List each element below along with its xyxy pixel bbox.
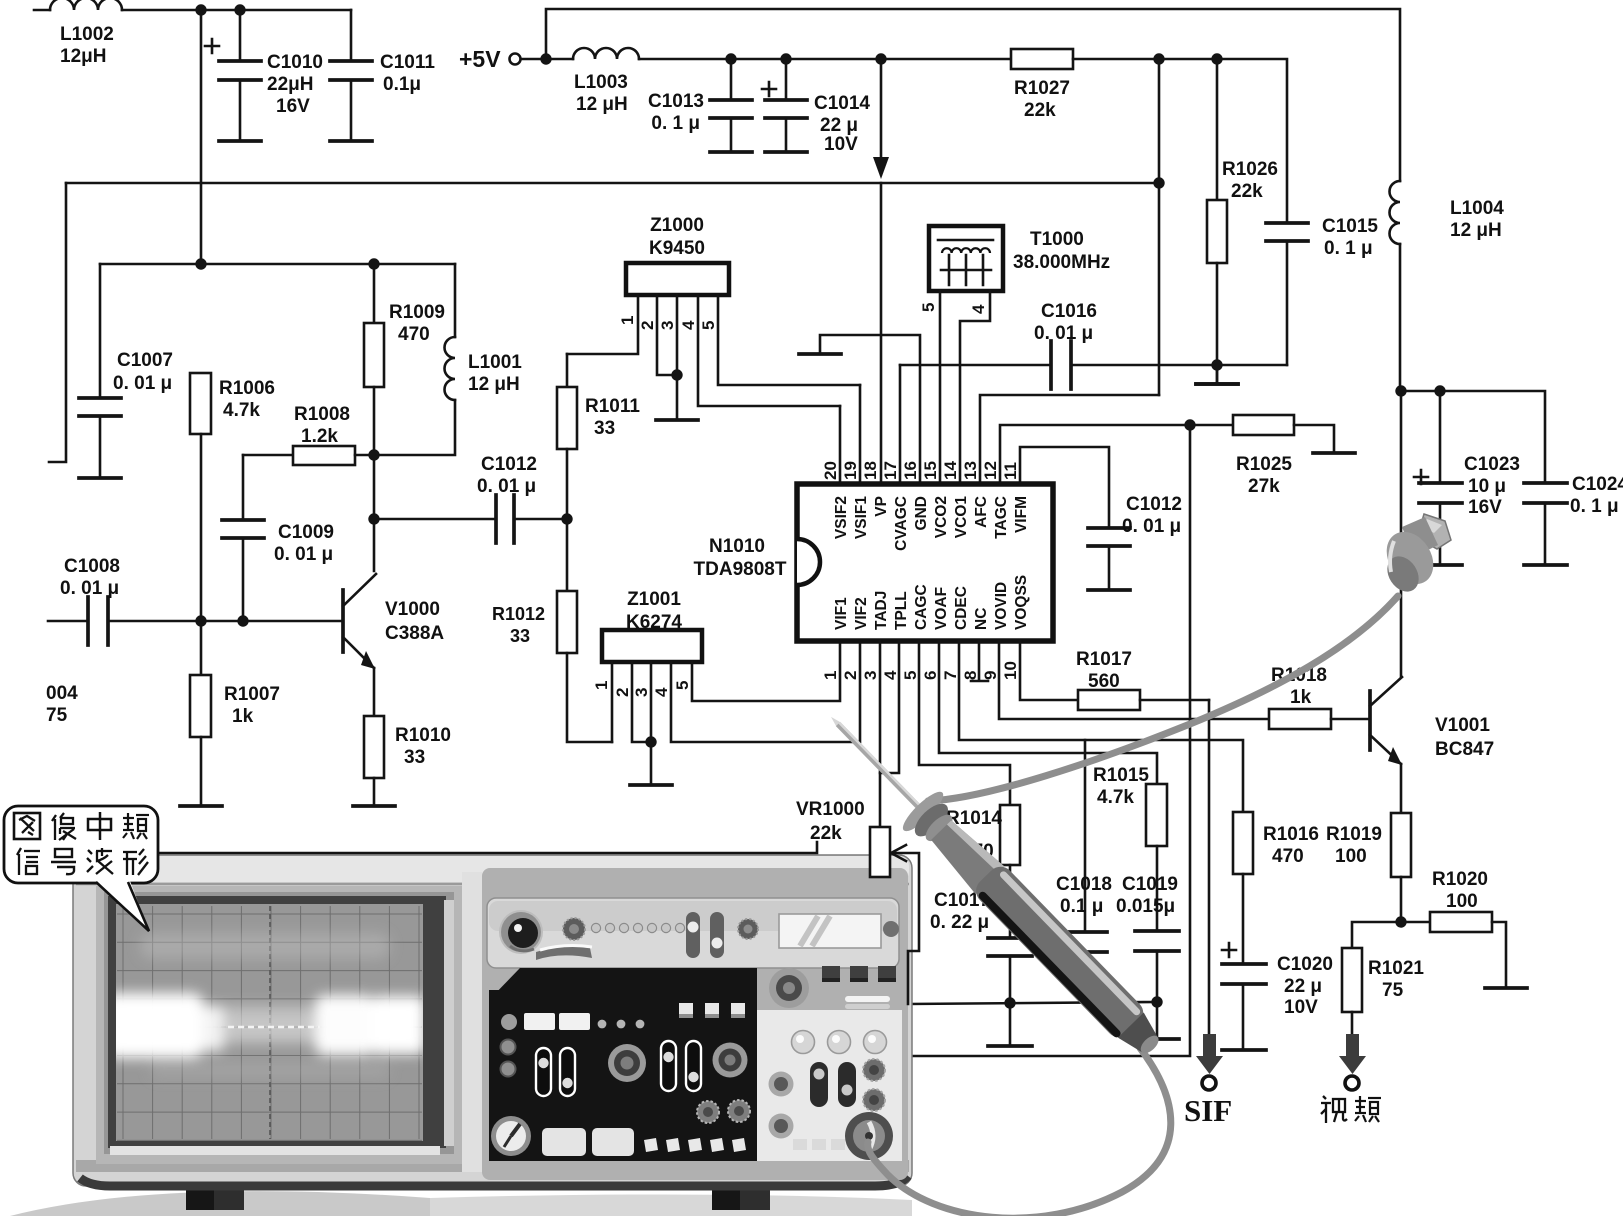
- svg-text:10 μ: 10 μ: [1468, 476, 1506, 497]
- svg-text:1: 1: [592, 681, 611, 690]
- crystal filter T1000: [929, 226, 1110, 291]
- ground C1012b: [1088, 588, 1130, 592]
- svg-text:4.7k: 4.7k: [223, 400, 260, 421]
- svg-text:VIFM: VIFM: [1013, 496, 1030, 533]
- svg-text:R1027: R1027: [1014, 78, 1070, 99]
- wire IC pin16 CVAGC stub: [820, 335, 920, 484]
- oscilloscope body: [10, 855, 912, 1216]
- svg-text:VOAF: VOAF: [933, 587, 950, 630]
- label bubble waveform note: [4, 806, 158, 931]
- svg-text:0. 01 μ: 0. 01 μ: [60, 578, 119, 599]
- svg-text:1: 1: [618, 316, 637, 325]
- svg-text:12 μH: 12 μH: [1450, 220, 1502, 241]
- svg-text:TPLL: TPLL: [893, 591, 910, 630]
- svg-text:C1013: C1013: [648, 91, 704, 112]
- probe cable to scope: [868, 1048, 1171, 1216]
- svg-text:VP: VP: [873, 496, 890, 517]
- ground C1007: [79, 476, 121, 480]
- ground C1016: [1216, 365, 1219, 384]
- filter Z1001: [602, 589, 702, 662]
- svg-text:1: 1: [821, 671, 840, 680]
- wire IC pin13 AFC to +5V: [980, 395, 1159, 484]
- svg-text:R1026: R1026: [1222, 159, 1278, 180]
- node ground C1016 line: [1211, 359, 1222, 370]
- wire top rail to L1004: [546, 9, 1400, 181]
- resistor R1016: [1233, 812, 1319, 964]
- node: [540, 53, 551, 64]
- svg-text:R1025: R1025: [1236, 454, 1292, 475]
- inductor L1002: [34, 0, 351, 67]
- svg-text:3: 3: [861, 671, 880, 680]
- node C1017 ground rail: [1004, 997, 1015, 1008]
- svg-text:100: 100: [1335, 846, 1367, 867]
- label video output: [1321, 1096, 1381, 1123]
- svg-text:10V: 10V: [824, 134, 858, 155]
- svg-text:14: 14: [941, 461, 960, 480]
- svg-text:17: 17: [881, 461, 900, 480]
- Z1001 pin 4 to IC pin2: [652, 641, 860, 742]
- svg-text:Z1000: Z1000: [650, 215, 704, 236]
- Z1000 pin 3: [658, 295, 677, 420]
- node junction L1002/C1010: [195, 4, 206, 15]
- potentiometer VR1000: [796, 799, 919, 1004]
- node L1004/C1023: [1395, 385, 1406, 396]
- rail +5V horizontal y183: [66, 182, 1159, 185]
- svg-text:560: 560: [1088, 671, 1120, 692]
- svg-text:VCO2: VCO2: [933, 496, 950, 538]
- Z1000 pin 4: [679, 295, 840, 406]
- svg-text:5: 5: [673, 681, 692, 690]
- svg-text:CDEC: CDEC: [953, 586, 970, 630]
- resistor R1026: [1207, 59, 1278, 384]
- svg-text:L1004: L1004: [1450, 198, 1504, 219]
- node Z1001 pins 2-3: [645, 736, 656, 747]
- capacitor C1023 electrolytic: [1414, 391, 1520, 565]
- stub bar R1020: [1485, 986, 1527, 990]
- svg-text:R1006: R1006: [219, 378, 275, 399]
- ground C1014: [765, 150, 807, 154]
- wire IC pin11 VIFM: [1020, 447, 1109, 528]
- svg-text:15: 15: [921, 461, 940, 480]
- svg-text:C1008: C1008: [64, 556, 120, 577]
- node: [1153, 177, 1164, 188]
- svg-text:C1007: C1007: [117, 350, 173, 371]
- resistor R1008: [243, 404, 374, 465]
- svg-text:75: 75: [1382, 980, 1404, 1001]
- ground C1017: [1009, 1003, 1012, 1046]
- svg-text:R1019: R1019: [1326, 824, 1382, 845]
- svg-text:R1008: R1008: [294, 404, 350, 425]
- wire IC pin20: [839, 406, 842, 484]
- svg-text:22 μ: 22 μ: [820, 115, 858, 136]
- svg-text:4: 4: [679, 320, 698, 330]
- svg-text:L1003: L1003: [574, 72, 628, 93]
- svg-text:11: 11: [1001, 462, 1020, 480]
- wire +5V to L1003: [521, 58, 573, 61]
- svg-text:4: 4: [969, 304, 988, 314]
- inductor L1004: [1390, 181, 1505, 391]
- svg-text:C1016: C1016: [1041, 301, 1097, 322]
- wire SIF vertical: [1208, 700, 1211, 1034]
- node: [1153, 53, 1164, 64]
- svg-text:22k: 22k: [810, 823, 842, 844]
- svg-text:VIF2: VIF2: [853, 597, 870, 630]
- terminal +5V: [459, 46, 521, 72]
- oscilloscope waveform: [104, 933, 426, 1078]
- ground C1020: [1222, 1048, 1266, 1052]
- ground C1010: [219, 139, 261, 143]
- ground R1026: [1196, 382, 1238, 386]
- svg-text:VIF1: VIF1: [833, 597, 850, 630]
- svg-text:10: 10: [1001, 661, 1020, 680]
- svg-text:C1020: C1020: [1277, 954, 1333, 975]
- svg-text:4: 4: [652, 687, 671, 697]
- svg-text:0. 01 μ: 0. 01 μ: [1034, 323, 1093, 344]
- wire R1027 right to C1015: [1073, 59, 1287, 223]
- node collector/C1012: [368, 513, 379, 524]
- svg-text:0. 1 μ: 0. 1 μ: [1324, 238, 1373, 259]
- svg-text:C1024: C1024: [1572, 474, 1623, 495]
- svg-text:C1010: C1010: [267, 52, 323, 73]
- svg-text:R1015: R1015: [1093, 765, 1149, 786]
- capacitor C1020 electrolytic: [1222, 943, 1333, 1050]
- wire C1023/C1024 top: [1401, 391, 1545, 483]
- capacitor C1024: [1524, 474, 1623, 565]
- capacitor C1016: [900, 301, 1287, 389]
- capacitor C1014: [762, 59, 870, 155]
- svg-text:V1000: V1000: [385, 599, 440, 620]
- svg-text:27k: 27k: [1248, 476, 1280, 497]
- resistor R1015: [1093, 765, 1167, 931]
- node emitter output: [1395, 916, 1406, 927]
- wire AFC net vertical: [1158, 59, 1161, 395]
- svg-text:V1001: V1001: [1435, 715, 1490, 736]
- svg-text:470: 470: [1272, 846, 1304, 867]
- test probe: [812, 698, 1174, 1068]
- transistor V1000: [343, 455, 444, 669]
- wire VR1000 bottom route behind scope: [158, 842, 817, 853]
- svg-text:VR1000: VR1000: [796, 799, 865, 820]
- svg-text:0. 1 μ: 0. 1 μ: [1570, 496, 1619, 517]
- svg-text:7: 7: [941, 671, 960, 680]
- svg-text:AFC: AFC: [973, 496, 990, 528]
- resistor R1006: [190, 373, 275, 621]
- svg-text:6: 6: [921, 671, 940, 680]
- svg-text:0. 22 μ: 0. 22 μ: [930, 912, 989, 933]
- resistor R1019: [1326, 764, 1411, 922]
- svg-text:TADJ: TADJ: [873, 591, 890, 630]
- output SIF: [1184, 1034, 1232, 1128]
- capacitor C1011: [330, 10, 435, 141]
- wire IC pin8 NC stub: [971, 641, 988, 681]
- inductor L1003: [573, 48, 639, 115]
- svg-text:19: 19: [841, 461, 860, 480]
- svg-text:BC847: BC847: [1435, 739, 1494, 760]
- wire IC pin17: [899, 365, 902, 484]
- ground R1007: [180, 804, 222, 808]
- wire IC pin12 TAGC: [1000, 425, 1233, 484]
- resistor R1021: [1342, 922, 1424, 1034]
- svg-text:12 μH: 12 μH: [576, 94, 628, 115]
- wire VP down to IC pin18: [880, 183, 883, 484]
- svg-text:L1002: L1002: [60, 24, 114, 45]
- svg-text:TDA9808T: TDA9808T: [694, 559, 787, 580]
- svg-text:R1017: R1017: [1076, 649, 1132, 670]
- svg-text:75: 75: [46, 705, 68, 726]
- svg-text:C1014: C1014: [814, 93, 870, 114]
- svg-text:0. 01 μ: 0. 01 μ: [113, 373, 172, 394]
- svg-text:C1019: C1019: [1122, 874, 1178, 895]
- capacitor C1008: [48, 556, 343, 645]
- node C1012/R1011/R1012: [561, 513, 572, 524]
- inductor L1001: [374, 264, 522, 455]
- svg-text:C1015: C1015: [1322, 216, 1378, 237]
- wire: [200, 10, 203, 264]
- node base line: [195, 615, 206, 626]
- Z1000 pin 5: [699, 295, 860, 385]
- svg-text:33: 33: [510, 626, 530, 646]
- wire mid-left horizontal: [100, 263, 455, 266]
- wire: [639, 58, 1011, 61]
- ground C1019: [1156, 1002, 1159, 1039]
- wire TAGC vertical down: [906, 425, 1190, 1056]
- svg-text:N1010: N1010: [709, 536, 765, 557]
- svg-text:12: 12: [981, 461, 1000, 480]
- svg-text:0.1μ: 0.1μ: [383, 74, 421, 95]
- svg-text:33: 33: [594, 418, 615, 439]
- ground C1013: [710, 150, 752, 154]
- node C1019 rail: [1151, 996, 1162, 1007]
- resistor R1007: [190, 621, 280, 806]
- capacitor C1018: [1056, 740, 1112, 1002]
- svg-text:VOVID: VOVID: [993, 582, 1010, 630]
- svg-text:3: 3: [632, 688, 651, 697]
- wire left drop stub: [49, 183, 66, 462]
- svg-text:VOQSS: VOQSS: [1013, 575, 1030, 630]
- svg-text:5: 5: [699, 321, 718, 330]
- node: [195, 258, 206, 269]
- ground R1010: [353, 804, 395, 808]
- svg-text:22k: 22k: [1024, 100, 1056, 121]
- svg-text:C1012: C1012: [1126, 494, 1182, 515]
- svg-text:K6274: K6274: [626, 612, 682, 633]
- filter Z1000: [626, 215, 729, 295]
- ground rail bottom: [908, 1002, 1157, 1004]
- svg-text:2: 2: [841, 671, 860, 680]
- svg-text:2: 2: [613, 688, 632, 697]
- wire IC pin5 CAGC: [919, 641, 1010, 805]
- capacitor C1015: [1266, 216, 1378, 365]
- svg-text:VSIF1: VSIF1: [853, 496, 870, 539]
- svg-text:C1011: C1011: [380, 52, 435, 73]
- resistor R1020: [1401, 869, 1506, 988]
- svg-text:C1009: C1009: [278, 522, 334, 543]
- resistor R1012: [492, 519, 612, 742]
- transistor V1001: [1370, 391, 1494, 765]
- ground C1024: [1524, 563, 1567, 567]
- svg-text:5: 5: [901, 671, 920, 680]
- svg-text:R1007: R1007: [224, 684, 280, 705]
- svg-text:R1016: R1016: [1263, 824, 1319, 845]
- svg-text:1.2k: 1.2k: [301, 426, 338, 447]
- svg-text:100: 100: [1446, 891, 1478, 912]
- Z1001 pin 3: [632, 662, 651, 785]
- svg-text:TAGC: TAGC: [993, 496, 1010, 539]
- ground C1023: [1419, 563, 1462, 567]
- wire IC pin10 VOQSS: [1020, 641, 1078, 700]
- wire IC pin7 CDEC: [959, 641, 1243, 812]
- svg-text:0.015μ: 0.015μ: [1116, 896, 1175, 917]
- svg-text:0.1 μ: 0.1 μ: [1060, 896, 1103, 917]
- Z1001 pin 5 to IC pin1: [673, 641, 840, 701]
- svg-text:12 μH: 12 μH: [468, 374, 520, 395]
- svg-text:T1000: T1000: [1030, 229, 1084, 250]
- svg-text:16V: 16V: [1468, 497, 1502, 518]
- Z1001 pin 1: [592, 662, 612, 742]
- svg-text:C388A: C388A: [385, 623, 444, 644]
- svg-text:16: 16: [901, 461, 920, 480]
- alligator clip cable: [928, 596, 1398, 801]
- svg-text:3: 3: [658, 321, 677, 330]
- ground Z1000: [656, 418, 698, 422]
- oscilloscope control panel: [482, 868, 908, 1180]
- label 004 75: [46, 683, 78, 726]
- svg-text:22 μ: 22 μ: [1284, 976, 1322, 997]
- svg-text:R1021: R1021: [1368, 958, 1424, 979]
- svg-text:0. 1 μ: 0. 1 μ: [651, 113, 700, 134]
- oscilloscope right controls: [757, 966, 902, 1161]
- svg-text:R1020: R1020: [1432, 869, 1488, 890]
- svg-text:CAGC: CAGC: [913, 584, 930, 630]
- capacitor C1012 (first): [374, 454, 567, 543]
- svg-text:VCO1: VCO1: [953, 496, 970, 539]
- svg-text:4: 4: [881, 670, 900, 680]
- svg-text:+5V: +5V: [459, 46, 501, 72]
- svg-text:18: 18: [861, 461, 880, 480]
- svg-text:2: 2: [638, 321, 657, 330]
- capacitor C1012 (second): [1088, 494, 1182, 590]
- svg-text:20: 20: [821, 461, 840, 480]
- svg-text:13: 13: [961, 461, 980, 480]
- node TAGC/R1025: [1184, 419, 1195, 430]
- svg-text:0. 01 μ: 0. 01 μ: [1122, 516, 1181, 537]
- svg-text:L1001: L1001: [468, 352, 522, 373]
- svg-text:NC: NC: [973, 608, 990, 630]
- resistor R1017: [1076, 649, 1209, 710]
- svg-text:CVAGC: CVAGC: [893, 496, 910, 551]
- svg-text:16V: 16V: [276, 96, 310, 117]
- Z1000 pin 1: [567, 295, 638, 354]
- svg-text:VSIF2: VSIF2: [833, 496, 850, 539]
- capacitor C1013: [648, 59, 752, 152]
- svg-text:K9450: K9450: [649, 238, 705, 259]
- svg-text:12μH: 12μH: [60, 46, 106, 67]
- resistor R1014: [946, 805, 1020, 938]
- svg-text:R1011: R1011: [585, 396, 640, 417]
- svg-text:4.7k: 4.7k: [1097, 787, 1134, 808]
- capacitor C1019: [1116, 874, 1179, 1002]
- node Z1000 pins 2-3: [671, 369, 682, 380]
- node R1009/L1001/R1008: [368, 449, 379, 460]
- svg-text:C1012: C1012: [481, 454, 537, 475]
- alligator clip: [1377, 514, 1451, 598]
- svg-text:22μH: 22μH: [267, 74, 313, 95]
- IC N1010 TDA9808T: [694, 461, 1053, 680]
- oscilloscope dark control section: [489, 968, 757, 1161]
- svg-text:22k: 22k: [1231, 181, 1263, 202]
- svg-text:1k: 1k: [232, 706, 254, 727]
- wire IC pin19: [859, 385, 862, 484]
- oscilloscope divider strip: [462, 872, 482, 1172]
- svg-text:5: 5: [919, 303, 938, 312]
- svg-text:SIF: SIF: [1184, 1093, 1232, 1128]
- svg-text:470: 470: [398, 324, 430, 345]
- wire IC pin9 VOVID: [999, 641, 1269, 719]
- svg-text:1k: 1k: [1290, 687, 1312, 708]
- svg-text:10V: 10V: [1284, 997, 1318, 1018]
- resistor R1011: [557, 354, 640, 519]
- stub bar R1025: [1313, 451, 1355, 455]
- resistor R1025: [1233, 415, 1334, 497]
- capacitor C1007: [79, 264, 173, 478]
- svg-text:R1012: R1012: [492, 604, 545, 624]
- wire IC pin6 VOAF: [939, 641, 1157, 784]
- wire IC pin3 TADJ to VR1000: [879, 641, 882, 827]
- svg-text:0. 01 μ: 0. 01 μ: [477, 476, 536, 497]
- output video: [1339, 1034, 1366, 1090]
- T1000 pin 5 to IC pin15: [919, 291, 940, 484]
- ground C1011: [330, 139, 372, 143]
- stub bar pin16: [799, 352, 841, 356]
- svg-text:R1010: R1010: [395, 725, 451, 746]
- svg-text:R1009: R1009: [389, 302, 445, 323]
- capacitor C1010: [205, 10, 323, 141]
- svg-text:Z1001: Z1001: [627, 589, 681, 610]
- svg-text:38.000MHz: 38.000MHz: [1013, 252, 1110, 273]
- supply arrow to VP rail: [873, 59, 889, 179]
- Z1001 pin 2: [613, 662, 651, 742]
- oscilloscope CRT screen: [96, 886, 462, 1164]
- svg-text:33: 33: [404, 747, 425, 768]
- capacitor C1017: [930, 890, 1032, 1003]
- ground Z1001: [630, 783, 672, 787]
- svg-text:C1018: C1018: [1056, 874, 1112, 895]
- svg-text:C1023: C1023: [1464, 454, 1520, 475]
- Z1000 pin 2: [638, 295, 677, 375]
- resistor R1018: [1269, 665, 1370, 729]
- svg-text:0. 01 μ: 0. 01 μ: [274, 544, 333, 565]
- svg-text:004: 004: [46, 683, 78, 704]
- wire IC pin4 TPLL: [880, 641, 899, 773]
- resistor R1009: [364, 264, 445, 455]
- svg-text:GND: GND: [913, 496, 930, 530]
- capacitor C1009: [222, 455, 334, 621]
- resistor R1010: [364, 668, 451, 806]
- resistor R1027: [1011, 49, 1073, 121]
- svg-text:9: 9: [981, 671, 1000, 680]
- node: [725, 53, 736, 64]
- svg-text:8: 8: [961, 671, 980, 680]
- T1000 pin 4 to IC pin14: [960, 291, 990, 484]
